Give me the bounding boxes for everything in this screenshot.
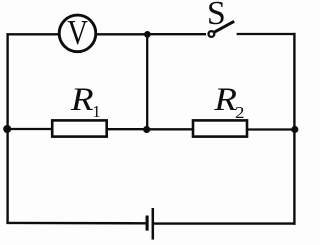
wire top-left to voltmeter bbox=[7, 33, 59, 35]
battery bbox=[147, 208, 153, 240]
svg-text:2: 2 bbox=[235, 103, 245, 122]
svg-text:S: S bbox=[207, 0, 226, 32]
voltmeter V bbox=[59, 12, 96, 52]
resistor R1 bbox=[52, 120, 106, 136]
wire left junction to R1 bbox=[7, 128, 53, 130]
node A junction dot top bbox=[144, 31, 151, 38]
node middle junction dot bbox=[143, 126, 150, 133]
label R2 bbox=[213, 81, 244, 122]
wire junction A to switch bbox=[148, 33, 207, 35]
wire left vertical bbox=[6, 33, 8, 224]
resistor R2 bbox=[193, 120, 247, 136]
svg-text:1: 1 bbox=[92, 102, 100, 121]
svg-text:V: V bbox=[67, 12, 88, 51]
wire voltmeter to junction A bbox=[97, 33, 148, 35]
wire middle junction to R2 bbox=[147, 128, 194, 130]
wire battery to bottom-right bbox=[154, 222, 296, 224]
wire middle vertical bbox=[146, 34, 148, 129]
node right junction dot bbox=[291, 126, 298, 133]
node left junction dot bbox=[3, 125, 11, 133]
wire switch to top-right corner bbox=[237, 33, 296, 35]
svg-text:R: R bbox=[70, 81, 94, 118]
wire bottom-left to battery bbox=[6, 222, 145, 225]
switch S bbox=[209, 21, 235, 37]
wire right vertical bbox=[293, 33, 295, 225]
svg-text:R: R bbox=[213, 81, 237, 118]
wire R1 to middle junction bbox=[107, 128, 147, 130]
label R1 bbox=[70, 81, 101, 121]
wire R2 to right junction bbox=[247, 128, 295, 130]
